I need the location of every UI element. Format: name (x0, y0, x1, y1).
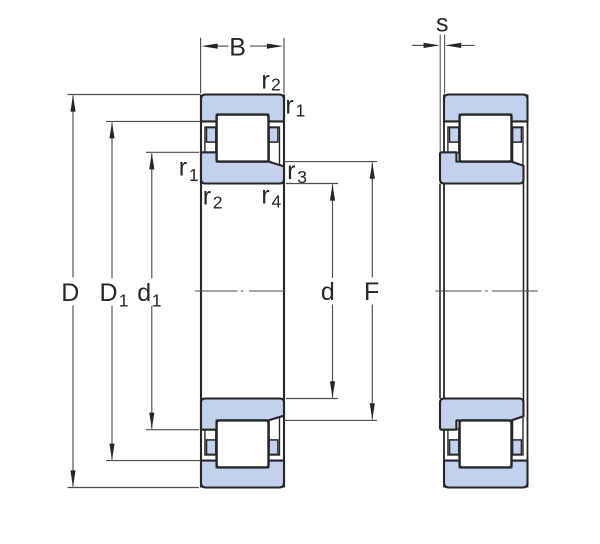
dimension B arrowheads (201, 44, 217, 49)
dimension D arrowheads (70, 95, 75, 111)
dimension d arrowheads (330, 184, 335, 200)
bearing silhouette line, right view outer-ring left face (443, 95, 445, 488)
dimension D line (72, 96, 74, 487)
dimension s line (412, 44, 475, 46)
upper half of bearing, right view (440, 95, 528, 184)
dimension B line (214, 45, 271, 47)
svg-text:d: d (137, 279, 151, 307)
svg-text:3: 3 (297, 167, 307, 187)
bearing OD silhouette line, left view right face (283, 95, 285, 488)
dimension D1 extension lines (106, 121, 200, 460)
svg-text:1: 1 (119, 291, 129, 311)
svg-text:r: r (261, 182, 269, 210)
bearing silhouette line, right view inner-ring right face (523, 166, 525, 416)
svg-text:F: F (364, 278, 379, 306)
dimension d1 extension lines (146, 152, 199, 429)
dimension D1 arrowheads (109, 122, 114, 138)
svg-text:r: r (285, 92, 293, 120)
svg-text:B: B (229, 33, 246, 61)
dimension d1 arrowheads (149, 153, 154, 169)
svg-text:r: r (203, 183, 211, 211)
dimension d1 line (151, 153, 153, 429)
upper half of sectioned bearing, left view (201, 95, 284, 184)
svg-text:r: r (179, 153, 187, 181)
dimension s extension lines (440, 35, 444, 152)
lower half of bearing, right view (mirrored) (440, 399, 528, 488)
bearing silhouette line, right view inner-ring left face (439, 184, 441, 399)
svg-text:1: 1 (189, 165, 199, 185)
svg-text:r: r (261, 66, 269, 94)
dimension F arrowheads (370, 162, 375, 178)
dimension d line (332, 184, 334, 397)
dimension F line (371, 163, 373, 420)
dimension d extension lines (286, 184, 338, 399)
svg-text:D: D (100, 279, 118, 307)
svg-text:2: 2 (271, 75, 281, 95)
bearing OD silhouette line, left view left face (200, 95, 202, 488)
axis center line, right view (436, 290, 539, 292)
axis center line, left view (195, 290, 286, 292)
svg-text:1: 1 (152, 291, 162, 311)
svg-text:r: r (287, 157, 295, 185)
bearing silhouette line, right view outer-ring right face (527, 95, 529, 488)
lower half of sectioned bearing, left view (mirrored) (201, 399, 284, 488)
dimension D1 line (111, 122, 113, 459)
svg-text:d: d (321, 278, 335, 306)
svg-text:1: 1 (296, 101, 306, 121)
svg-text:4: 4 (272, 191, 282, 211)
dimension D extension lines (68, 95, 201, 488)
svg-text:s: s (436, 10, 449, 38)
svg-text:2: 2 (213, 192, 223, 212)
dimension F extension lines (284, 162, 377, 421)
dimension B extension lines (201, 38, 284, 94)
svg-text:D: D (61, 279, 79, 307)
dimension s arrowheads (424, 43, 440, 48)
